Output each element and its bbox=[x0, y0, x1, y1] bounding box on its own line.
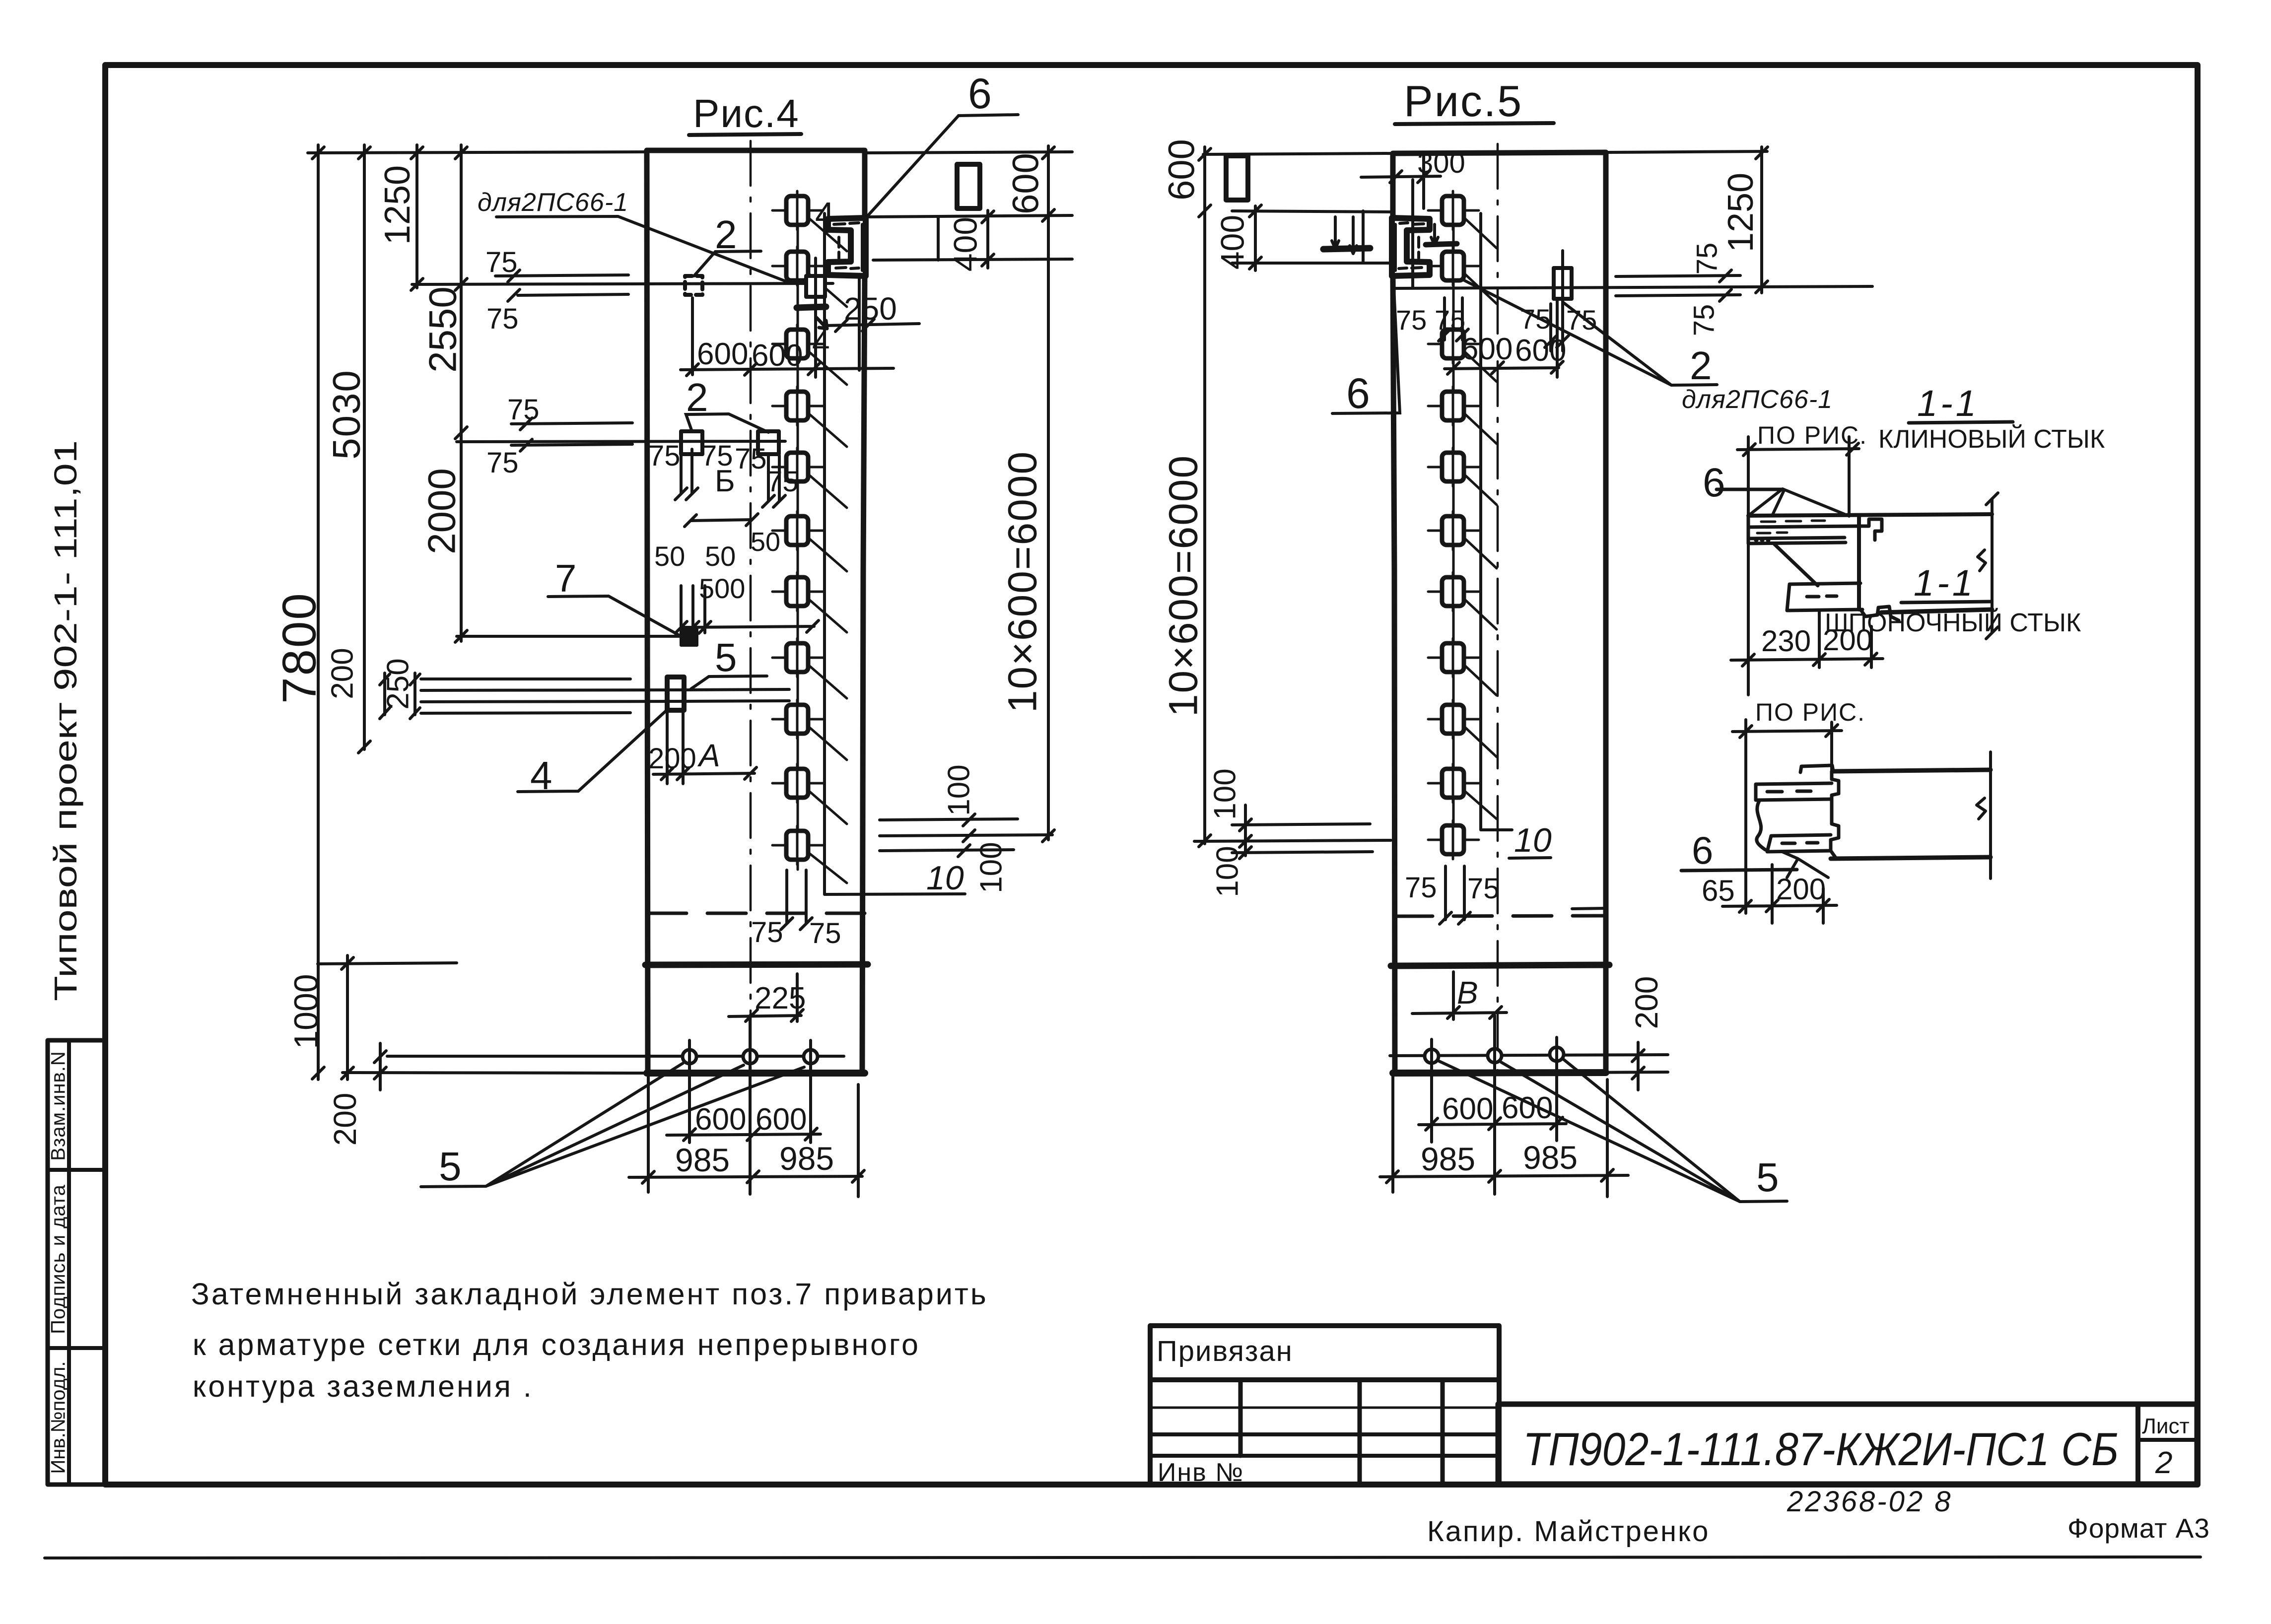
fig4 pos7 black square bbox=[681, 627, 697, 645]
fig4 panel bottom edge bbox=[647, 1070, 865, 1077]
fig5 embedded squares column bbox=[1428, 191, 1497, 859]
fig5 panel outline bbox=[1393, 152, 1606, 1071]
svg-text:Б: Б bbox=[715, 464, 735, 498]
fig4 bent bar slashes bbox=[380, 674, 420, 719]
svg-text:Капир. Майстренко: Капир. Майстренко bbox=[1427, 1515, 1710, 1548]
fig4 dim line 5030 bbox=[363, 145, 366, 749]
fig4 lifting hole bbox=[957, 164, 980, 208]
fig5 label 10 underline bbox=[1509, 858, 1551, 858]
det2 right end bbox=[1977, 752, 1991, 879]
svg-text:75: 75 bbox=[1688, 304, 1720, 337]
fig4 hole edge line bbox=[937, 217, 940, 260]
det1 right end bbox=[1978, 493, 1998, 639]
svg-text:75: 75 bbox=[1691, 243, 1723, 275]
svg-text:500: 500 bbox=[699, 573, 745, 604]
fig4 dim 500 bbox=[675, 586, 819, 633]
svg-text:100: 100 bbox=[1210, 846, 1244, 897]
det1 strip dashes bbox=[1755, 521, 1825, 541]
det1 leader 6 bbox=[1717, 488, 1781, 491]
fig5 section mark right bbox=[1431, 224, 1438, 245]
fig4 right 100 extensions bbox=[880, 819, 1052, 851]
fig5 left dim slashes bbox=[1199, 148, 1261, 847]
det1 top edge bbox=[1748, 514, 1992, 516]
bottom trim line bbox=[45, 1557, 2201, 1558]
list cell bbox=[2135, 1404, 2140, 1484]
fig4 leader 6 bbox=[867, 115, 1018, 217]
svg-text:1250: 1250 bbox=[378, 165, 417, 245]
det1 lower block bbox=[1787, 583, 1862, 610]
svg-text:для2ПС66-1: для2ПС66-1 bbox=[1682, 385, 1833, 414]
TITLE BLOCK bbox=[1150, 1326, 2197, 1485]
fig4 C-channel inner dashes bbox=[834, 223, 859, 269]
svg-text:100: 100 bbox=[974, 842, 1008, 893]
fig5 lifting hole bbox=[1226, 156, 1248, 200]
fig4 anchor bar bbox=[797, 307, 826, 308]
fig5 row1 small square bbox=[1554, 268, 1572, 299]
svg-text:75: 75 bbox=[1467, 873, 1500, 905]
fig4 inner thick line bbox=[645, 964, 868, 965]
det2 dim 65-200 bbox=[1722, 865, 1837, 923]
svg-text:В: В bbox=[1457, 975, 1478, 1011]
fig4 arrow mark bbox=[817, 318, 827, 329]
det1 wedge top bbox=[1748, 489, 1845, 516]
svg-text:75: 75 bbox=[648, 440, 681, 472]
fig4 75 cluster row2 bbox=[511, 418, 632, 451]
svg-text:10×600=6000: 10×600=6000 bbox=[1161, 455, 1206, 717]
svg-text:10: 10 bbox=[1514, 821, 1552, 859]
svg-text:2550: 2550 bbox=[421, 286, 465, 373]
fig5 dim 600600 row1 bbox=[1445, 300, 1563, 377]
svg-text:600: 600 bbox=[697, 337, 748, 371]
svg-text:ТП902-1-111.87-КЖ2И-ПС1 СБ: ТП902-1-111.87-КЖ2И-ПС1 СБ bbox=[1523, 1423, 2119, 1475]
fig4 anchor circle 2 bbox=[743, 1050, 757, 1064]
svg-text:50: 50 bbox=[705, 541, 736, 572]
svg-text:600: 600 bbox=[695, 1102, 746, 1137]
det2 mouth steps bbox=[1831, 771, 1839, 858]
fig4 row1 small square bbox=[685, 276, 702, 295]
fig4 anchor circle 1 bbox=[683, 1050, 696, 1064]
det2 top lug bbox=[1800, 765, 1833, 772]
fig4 C-channel slot bbox=[828, 218, 866, 276]
svg-text:600: 600 bbox=[752, 338, 803, 373]
fig5 dim line 600-6000 bbox=[1203, 147, 1206, 844]
main stamp bar bbox=[1498, 1404, 2197, 1484]
fig4 T-bar plate bbox=[667, 677, 684, 710]
svg-text:к арматуре сетки для создания: к арматуре сетки для создания непрерывно… bbox=[193, 1328, 920, 1361]
det1 panel bottom edge bbox=[1881, 609, 1992, 612]
svg-text:75: 75 bbox=[1405, 872, 1437, 904]
svg-text:50: 50 bbox=[751, 527, 780, 557]
fig4 dim 225 bbox=[729, 974, 803, 1021]
svg-text:Рис.4: Рис.4 bbox=[693, 91, 800, 135]
svg-text:200: 200 bbox=[1629, 976, 1664, 1029]
svg-text:400: 400 bbox=[947, 217, 983, 271]
svg-text:6: 6 bbox=[1703, 460, 1725, 505]
svg-text:1250: 1250 bbox=[1721, 173, 1761, 252]
fig4 squares column line bbox=[797, 195, 799, 870]
strip divider vertical bbox=[67, 1040, 71, 1485]
svg-text:600: 600 bbox=[1442, 1092, 1493, 1126]
fig4 leader dlya2ps66 bbox=[496, 216, 791, 283]
fig4 embedded squares column bbox=[772, 191, 847, 883]
det2 leader 6 bbox=[1681, 870, 1797, 871]
svg-text:985: 985 bbox=[1421, 1141, 1475, 1177]
svg-text:75: 75 bbox=[486, 303, 519, 335]
svg-text:600: 600 bbox=[1161, 139, 1202, 200]
svg-text:985: 985 bbox=[675, 1142, 730, 1178]
svg-text:7800: 7800 bbox=[273, 592, 326, 704]
svg-text:100: 100 bbox=[1208, 768, 1242, 819]
fig4 dim line 1000 bbox=[346, 955, 349, 1080]
det1 po ris dim bbox=[1737, 437, 1859, 695]
fig5 left 100 slashes bbox=[1239, 819, 1251, 859]
det1 title underline bbox=[1909, 422, 2013, 423]
fig4 row1 level line bbox=[412, 283, 833, 284]
svg-text:Рис.5: Рис.5 bbox=[1404, 76, 1523, 126]
fig4 leader 5 bbox=[691, 676, 767, 689]
fig4 dim 200A bbox=[653, 710, 757, 784]
fig5 leader 6 bbox=[1332, 278, 1400, 413]
svg-text:985: 985 bbox=[779, 1140, 834, 1177]
svg-text:65: 65 bbox=[1702, 874, 1735, 907]
fig5 inner thick line bbox=[1391, 965, 1609, 966]
fig5 dim 985985 bbox=[1380, 1073, 1628, 1197]
fig4 bottom 75 ticks bbox=[781, 870, 812, 930]
svg-text:600: 600 bbox=[1502, 1091, 1553, 1125]
fig5 hole edge line bbox=[1362, 211, 1365, 263]
svg-text:75: 75 bbox=[809, 917, 841, 949]
privyazan table bbox=[1150, 1326, 1499, 1485]
svg-text:75: 75 bbox=[1396, 304, 1427, 336]
svg-text:230: 230 bbox=[1761, 624, 1811, 658]
svg-text:ШПОНОЧНЫЙ СТЫК: ШПОНОЧНЫЙ СТЫК bbox=[1825, 608, 2081, 637]
det2 top edge bbox=[1833, 770, 1991, 771]
fig4 row2 right square bbox=[758, 431, 779, 454]
svg-text:6: 6 bbox=[1346, 370, 1370, 417]
svg-text:2: 2 bbox=[2155, 1446, 2172, 1480]
fig5 left 100 extensions bbox=[1194, 824, 1391, 853]
svg-text:225: 225 bbox=[755, 981, 806, 1015]
fig5 right dim slashes bbox=[1756, 147, 1768, 293]
strip outer box bbox=[48, 1040, 105, 1485]
det2 bottom edge bbox=[1831, 857, 1991, 859]
svg-text:Подпись и дата: Подпись и дата bbox=[48, 1184, 69, 1334]
svg-text:Инв №: Инв № bbox=[1158, 1458, 1244, 1487]
fig4 circle stubs bbox=[689, 1015, 811, 1194]
fig4 dim 250 bbox=[824, 278, 919, 370]
svg-text:985: 985 bbox=[1523, 1139, 1578, 1176]
fig5 anchor circle 3 bbox=[1550, 1047, 1564, 1061]
svg-text:4: 4 bbox=[815, 195, 834, 234]
svg-text:100: 100 bbox=[942, 764, 976, 815]
svg-text:ПО РИС.: ПО РИС. bbox=[1757, 421, 1867, 449]
svg-text:7: 7 bbox=[555, 556, 576, 600]
fig4 bent bar lines bbox=[421, 679, 684, 713]
svg-text:5030: 5030 bbox=[325, 369, 368, 460]
svg-text:Лист: Лист bbox=[2142, 1414, 2190, 1438]
fig5 circles line bbox=[1390, 1055, 1668, 1056]
fig5 300 dim bbox=[1361, 154, 1441, 287]
svg-text:Взам.инв.N: Взам.инв.N bbox=[48, 1051, 69, 1161]
det1 hatch strip bbox=[1748, 516, 1859, 543]
svg-text:600: 600 bbox=[756, 1102, 807, 1137]
fig5 dashed break line bbox=[1394, 916, 1606, 916]
fig5 anchor circle 1 bbox=[1425, 1049, 1439, 1063]
svg-text:для2ПС66-1: для2ПС66-1 bbox=[478, 188, 628, 217]
fig5 title underline bbox=[1395, 123, 1554, 124]
fig4 left dim slashes bbox=[312, 147, 467, 1079]
fig4 75 cluster row1 bbox=[495, 270, 628, 301]
fig4 dim line 600-6000 bbox=[1047, 146, 1050, 840]
svg-text:Типовой проект 902-1- 111,01: Типовой проект 902-1- 111,01 bbox=[48, 440, 83, 1001]
svg-text:6: 6 bbox=[1692, 828, 1713, 872]
fig4 right dim slashes bbox=[982, 147, 1054, 842]
svg-text:75: 75 bbox=[1520, 303, 1551, 335]
fig4 T-bar rails bbox=[684, 689, 789, 701]
fig5 C-channel slot bbox=[1392, 218, 1430, 276]
svg-text:600: 600 bbox=[1461, 332, 1513, 366]
fig4 top right extensions bbox=[865, 152, 1072, 260]
fig4 circles line bbox=[387, 1055, 844, 1058]
fig4 row2 level line bbox=[457, 441, 785, 442]
svg-text:Формат А3: Формат А3 bbox=[2067, 1513, 2210, 1544]
svg-text:1-1: 1-1 bbox=[1917, 383, 1979, 424]
fig5 dim B bbox=[1412, 972, 1507, 1019]
svg-text:контура заземления .: контура заземления . bbox=[193, 1369, 534, 1403]
fig5 dim 200 right bbox=[1572, 1042, 1668, 1090]
det2 upper bar bbox=[1756, 783, 1832, 800]
det1 lower step Z bbox=[1860, 607, 1899, 620]
fig5 left top extensions bbox=[1203, 153, 1393, 263]
svg-text:22368-02 8: 22368-02 8 bbox=[1787, 1486, 1952, 1518]
fig4 pos7 level line bbox=[457, 635, 681, 638]
fig4 leader 4 bottom bbox=[518, 710, 667, 792]
fig4 dim 600600 bottom bbox=[667, 1067, 821, 1142]
fig4 leader 7 bbox=[548, 596, 681, 636]
fig4 dim line 2550-2000 bbox=[460, 145, 463, 641]
det1 wedge right edge bbox=[1857, 516, 1861, 609]
svg-text:6: 6 bbox=[968, 70, 992, 118]
fig4 inner step line to pos10 bbox=[825, 213, 965, 894]
svg-text:600: 600 bbox=[1515, 334, 1566, 368]
fig5 anchor circle 2 bbox=[1488, 1049, 1502, 1063]
strip divider h1 bbox=[48, 1168, 105, 1172]
fig4 dim line 400 bbox=[986, 210, 989, 268]
svg-text:600: 600 bbox=[1005, 153, 1046, 214]
fig4 leader 5 bottom bbox=[421, 1063, 804, 1187]
svg-text:5: 5 bbox=[439, 1144, 462, 1189]
fig4 panel outline bbox=[647, 150, 865, 1071]
svg-text:Затемненный закладной элемент: Затемненный закладной элемент поз.7 прив… bbox=[191, 1277, 988, 1311]
fig4 title underline bbox=[689, 134, 801, 135]
fig4 dim line 7800 bbox=[317, 145, 320, 1080]
svg-text:75: 75 bbox=[486, 447, 519, 479]
fig4 left dim extension lines bbox=[308, 152, 647, 1073]
svg-text:75: 75 bbox=[751, 916, 783, 948]
fig5 bottom 75 ticks bbox=[1440, 866, 1470, 924]
det2 title underline bbox=[1901, 602, 1992, 603]
det1 big diagonal bbox=[1774, 543, 1818, 586]
svg-text:200: 200 bbox=[1776, 873, 1826, 906]
fig4 row1 right square bbox=[806, 276, 825, 297]
fig4 anchor circle 3 bbox=[804, 1050, 818, 1064]
svg-text:75: 75 bbox=[1566, 304, 1597, 336]
fig5 section mark left bbox=[1332, 217, 1357, 254]
fig4 leader 2 row1 bbox=[694, 251, 761, 276]
fig4 right 100 slashes bbox=[958, 814, 975, 857]
fig5 leader 5 bbox=[1438, 1059, 1787, 1202]
fig5 row1 sq stub bbox=[1561, 251, 1564, 320]
svg-text:75: 75 bbox=[766, 466, 799, 498]
svg-text:1000: 1000 bbox=[287, 974, 325, 1049]
svg-text:400: 400 bbox=[1214, 215, 1250, 270]
fig5 panel bottom edge bbox=[1393, 1073, 1606, 1073]
fig4 leader 2 row2 bbox=[686, 414, 768, 432]
fig4 centerline bbox=[750, 141, 752, 1071]
fig5 circle stubs bbox=[1432, 1015, 1557, 1194]
fig5 dim 600600 bottom bbox=[1419, 1065, 1566, 1141]
det1 upper step Z bbox=[1859, 519, 1882, 540]
svg-text:1-1: 1-1 bbox=[1914, 562, 1976, 604]
svg-text:75: 75 bbox=[735, 443, 767, 475]
svg-text:200: 200 bbox=[327, 1093, 363, 1146]
svg-text:ПО РИС.: ПО РИС. bbox=[1755, 698, 1865, 726]
fig4 dim 985985 bbox=[629, 1073, 864, 1197]
strip divider h2 bbox=[48, 1346, 105, 1350]
fig5 75 rot cluster lines bbox=[1616, 270, 1740, 301]
det2 bottom diagonal bbox=[1782, 852, 1828, 878]
fig4 B dim line bbox=[685, 514, 758, 527]
fig4 row1 right square stub bbox=[814, 258, 817, 377]
fig4 row2 left square bbox=[681, 431, 702, 454]
svg-text:КЛИНОВЫЙ СТЫК: КЛИНОВЫЙ СТЫК bbox=[1878, 424, 2105, 454]
fig4 75 in-panel ticks bbox=[675, 449, 785, 507]
svg-text:250: 250 bbox=[381, 658, 415, 709]
svg-text:10: 10 bbox=[926, 859, 964, 897]
svg-text:75: 75 bbox=[507, 394, 540, 426]
det1 dim 230-200 bbox=[1731, 611, 1883, 668]
svg-text:250: 250 bbox=[844, 291, 897, 327]
svg-text:10×600=6000: 10×600=6000 bbox=[1000, 451, 1045, 713]
fig4 bent bar tick verticals bbox=[385, 673, 415, 715]
fig4 dim line 1250 bbox=[415, 145, 418, 288]
fig5 leader 2 bbox=[1464, 280, 1717, 385]
fig5 row1 level line bbox=[1393, 286, 1872, 288]
fig5 dim line 400 bbox=[1254, 206, 1257, 271]
det2 po ris dim bbox=[1732, 720, 1842, 913]
svg-text:2: 2 bbox=[1690, 343, 1712, 388]
svg-text:200: 200 bbox=[325, 648, 359, 699]
fig5 inner step line to pos10 bbox=[1481, 213, 1512, 830]
det2 wavy left edge bbox=[1757, 800, 1765, 850]
fig5 dim line 1250 bbox=[1760, 147, 1763, 293]
fig5 centerline bbox=[1497, 144, 1499, 1071]
svg-text:Привязан: Привязан bbox=[1157, 1335, 1293, 1367]
det2 lower bar bbox=[1767, 835, 1831, 852]
fig5 75 inner ticks left pair bbox=[1439, 298, 1468, 341]
svg-text:Инв.№подл.: Инв.№подл. bbox=[48, 1361, 69, 1474]
fig4 dashed break line bbox=[648, 912, 865, 915]
svg-text:200: 200 bbox=[648, 743, 696, 775]
svg-text:2: 2 bbox=[686, 375, 708, 419]
fig4 dim 600600 row1 bbox=[681, 298, 894, 376]
svg-text:75: 75 bbox=[485, 246, 518, 278]
svg-text:300: 300 bbox=[1417, 147, 1465, 179]
fig5 C-channel inner dashes bbox=[1399, 223, 1424, 269]
svg-text:5: 5 bbox=[715, 635, 737, 679]
svg-text:А: А bbox=[697, 738, 720, 773]
fig5 squares column line bbox=[1452, 198, 1455, 855]
fig5 75 in-panel ticks bbox=[1545, 304, 1569, 351]
svg-text:5: 5 bbox=[1756, 1155, 1779, 1200]
svg-text:50: 50 bbox=[654, 541, 685, 572]
svg-text:2000: 2000 bbox=[420, 468, 464, 554]
fig5 right extensions bbox=[1564, 151, 1767, 964]
fig4 dim line 200 bottom bbox=[379, 1043, 382, 1090]
fig5 100 carrier bbox=[1244, 805, 1247, 856]
